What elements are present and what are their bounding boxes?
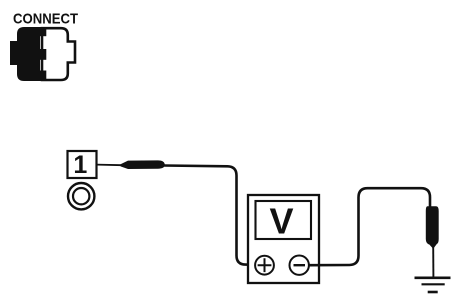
voltmeter positive terminal bbox=[255, 256, 274, 275]
svg-text:V: V bbox=[269, 201, 293, 242]
ground symbol bbox=[415, 278, 451, 292]
voltmeter negative terminal bbox=[290, 256, 309, 275]
voltmeter display with V bbox=[256, 201, 312, 242]
connector icon left half (black plug with E contour) bbox=[10, 27, 46, 81]
probe needle (right, to ground) bbox=[432, 246, 434, 277]
voltmeter U1 body bbox=[248, 195, 319, 283]
terminal 1 box bbox=[68, 151, 97, 179]
svg-text:1: 1 bbox=[73, 151, 87, 179]
CONNECT label bbox=[13, 10, 78, 27]
probe needle (left test probe) bbox=[97, 164, 123, 167]
wire from negative terminal to right probe bbox=[309, 188, 430, 265]
test probe body (right) bbox=[426, 206, 439, 249]
connector icon right half (outlined plug) bbox=[42, 28, 75, 80]
terminal 1 pin (double circle) bbox=[68, 183, 94, 209]
test probe body (left) bbox=[121, 160, 165, 169]
wire from left probe to voltmeter plus terminal bbox=[164, 166, 256, 265]
svg-text:CONNECT: CONNECT bbox=[13, 10, 78, 27]
